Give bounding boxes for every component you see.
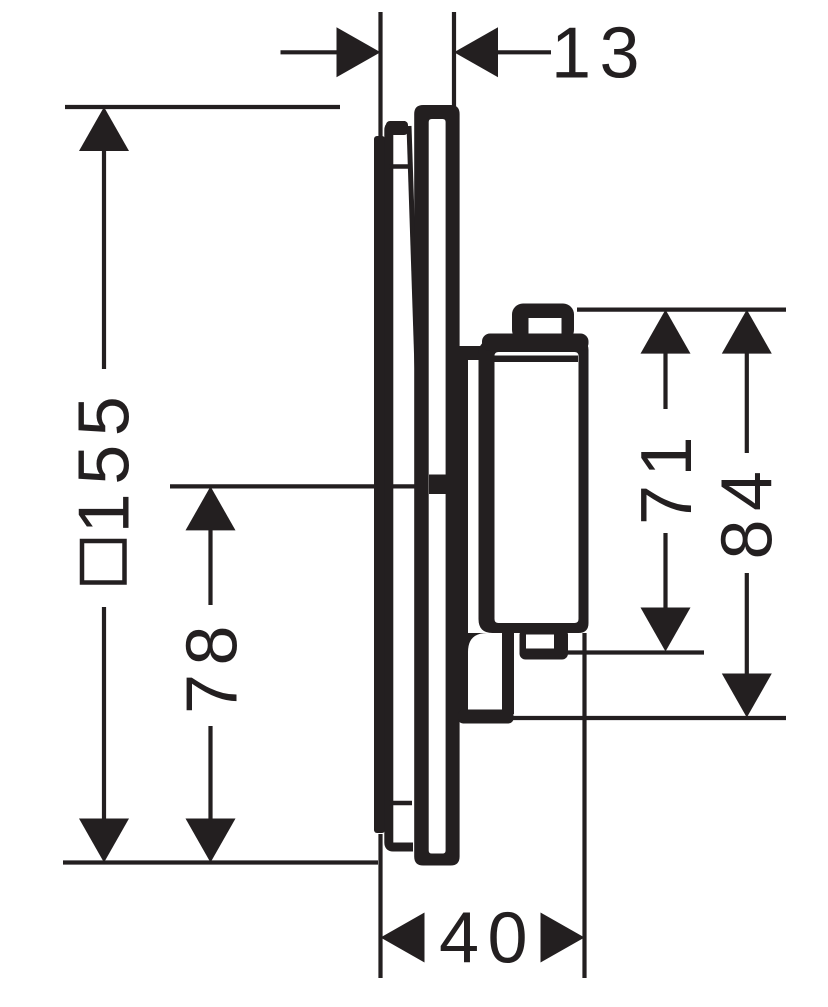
svg-text:78: 78 — [173, 617, 253, 714]
svg-text:155: 155 — [65, 388, 145, 534]
svg-text:71: 71 — [627, 428, 707, 525]
svg-text:40: 40 — [439, 899, 536, 979]
svg-text:13: 13 — [551, 14, 648, 94]
svg-text:84: 84 — [708, 462, 788, 559]
